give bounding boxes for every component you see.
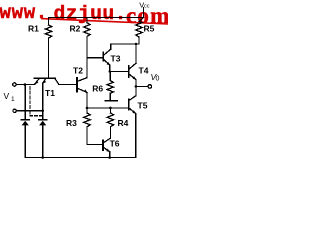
svg-text:T3: T3 <box>111 54 121 64</box>
svg-text:T1: T1 <box>45 88 55 98</box>
svg-text:0: 0 <box>156 75 160 82</box>
svg-text:1: 1 <box>11 96 15 103</box>
svg-text:R2: R2 <box>70 24 81 34</box>
svg-text:R1: R1 <box>28 24 39 34</box>
svg-text:T4: T4 <box>139 65 149 75</box>
svg-text:cc: cc <box>144 4 150 10</box>
svg-text:R6: R6 <box>92 84 103 94</box>
svg-text:T6: T6 <box>110 138 120 148</box>
svg-text:V: V <box>4 91 10 101</box>
svg-text:R5: R5 <box>144 23 155 33</box>
svg-text:T5: T5 <box>138 100 148 110</box>
svg-text:R4: R4 <box>118 118 129 128</box>
svg-text:T2: T2 <box>73 66 83 76</box>
svg-text:R3: R3 <box>66 118 77 128</box>
